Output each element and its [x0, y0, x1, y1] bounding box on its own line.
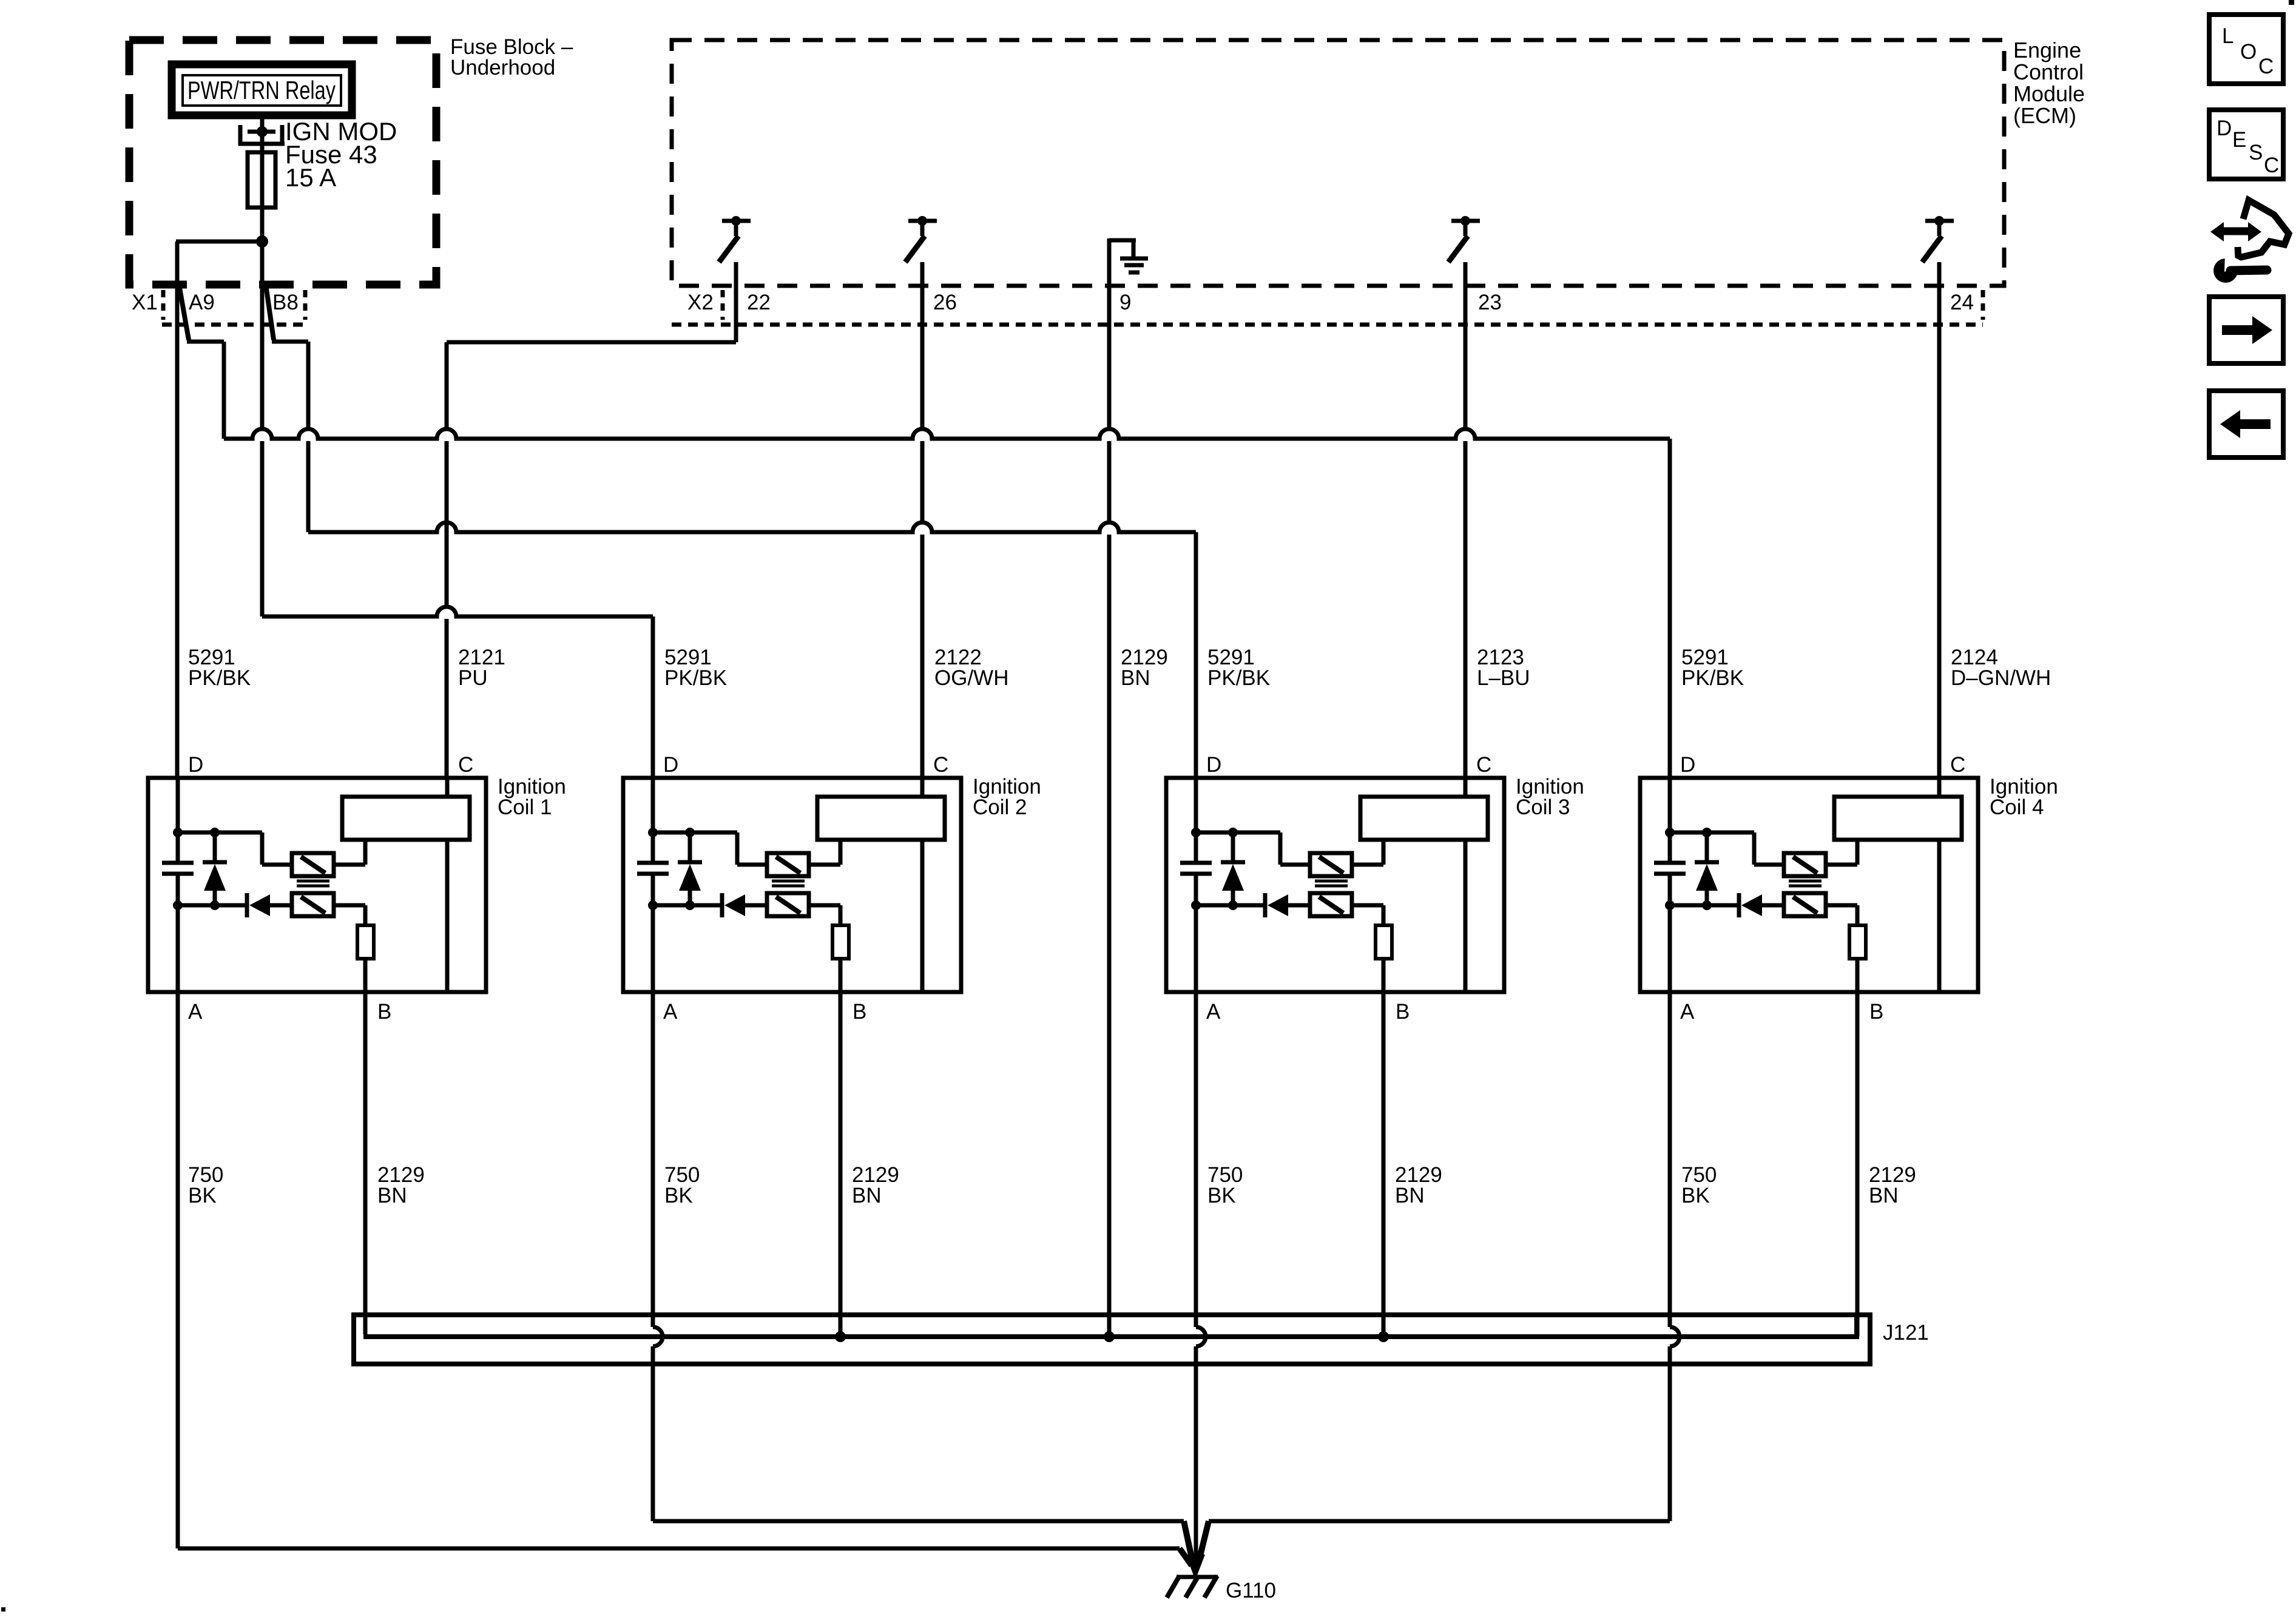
coil 4 D-A internal wire [1668, 778, 1672, 861]
svg-text:B8: B8 [272, 291, 299, 314]
coil 2 D-A internal wire [651, 778, 655, 861]
svg-text:BK: BK [188, 1184, 217, 1207]
svg-text:Control: Control [2013, 59, 2084, 84]
wire junction to A9 [176, 240, 262, 244]
svg-text:PK/BK: PK/BK [664, 666, 727, 690]
svg-text:C: C [458, 753, 473, 777]
connector X1 row dotted line [162, 323, 306, 327]
svg-text:Coil 3: Coil 3 [1516, 795, 1570, 819]
wire 2129 BN pin 9 [1107, 238, 1112, 429]
coil 3 zener diode [1231, 832, 1235, 862]
coil 4 driver top box [1784, 853, 1826, 876]
svg-text:BN: BN [852, 1184, 882, 1207]
wire coil3 B to J121 [1382, 992, 1386, 1337]
coil 2 link top box to winding [809, 863, 840, 867]
coil 1 driver top box [292, 853, 334, 876]
svg-text:D: D [663, 753, 678, 777]
coil 1 core bars [297, 880, 329, 883]
coil 3 driver bottom box [1310, 893, 1352, 916]
ECM dashed box [672, 40, 2004, 286]
svg-text:A: A [1680, 1000, 1695, 1024]
svg-text:BK: BK [1681, 1184, 1710, 1207]
coil 1 top rail [178, 831, 262, 835]
coil 2 core bars [772, 880, 805, 883]
svg-text:9: 9 [1119, 291, 1131, 314]
ignition coil 2 box [623, 778, 961, 992]
coil 2 resistor [832, 925, 849, 959]
coil 2 zener diode [688, 832, 692, 862]
coil 3 driver top box [1310, 853, 1352, 876]
ground G110 symbol [1177, 1575, 1218, 1579]
wire coil4 A down [1668, 992, 1672, 1327]
wire 2121 PU pin22 jog [734, 262, 738, 342]
svg-text:PK/BK: PK/BK [1207, 666, 1270, 690]
coil 1 capacitor [162, 861, 194, 865]
coil 2 bottom rail [653, 903, 720, 908]
coil 1 primary winding [342, 797, 470, 840]
wire A9 branch to bus1 [187, 340, 224, 344]
bus2 wire 5291 to coil3 D [308, 522, 1196, 532]
coil 2 link bottom box to resistor [809, 903, 840, 908]
svg-text:26: 26 [933, 291, 957, 314]
coil 3 core bars [1315, 880, 1348, 883]
coil 3 primary winding [1360, 797, 1488, 840]
svg-text:C: C [933, 753, 948, 777]
coil 4 link bottom box to resistor [1826, 903, 1857, 908]
wire 2122 OG/WH pin 26 [920, 262, 925, 429]
ECM driver pin 23 [1451, 219, 1480, 223]
junction dot fuse output [256, 235, 268, 248]
coil 2 driver bottom box [767, 893, 809, 916]
wire coil2 B to J121 [839, 992, 843, 1337]
wire fuse to junction [260, 208, 265, 241]
coil 3 link top box to winding [1352, 863, 1383, 867]
pin A9 terminal slant [179, 285, 189, 340]
svg-text:BN: BN [1121, 666, 1150, 690]
coil 2 B internal wire [839, 959, 843, 992]
icon LOC box [2209, 15, 2283, 84]
svg-text:22: 22 [747, 291, 771, 314]
ECM internal ground pin 9 [1109, 238, 1136, 243]
svg-text:Coil 4: Coil 4 [1990, 795, 2044, 819]
svg-text:C: C [1476, 753, 1491, 777]
ECM driver pin 22 [722, 219, 751, 223]
coil 4 C internal wire [1937, 778, 1942, 797]
wire through fuse [260, 157, 265, 208]
coil 3 top rail [1196, 831, 1280, 835]
svg-text:Underhood: Underhood [450, 56, 555, 79]
svg-text:X2: X2 [687, 291, 714, 314]
svg-text:D: D [188, 753, 203, 777]
bus1 wire 5291 to coil4 D [224, 429, 1670, 439]
svg-text:BN: BN [1869, 1184, 1899, 1207]
svg-text:15 A: 15 A [285, 163, 336, 192]
svg-text:A: A [1206, 1000, 1221, 1024]
svg-text:B: B [1869, 1000, 1883, 1024]
ignition coil 3 box [1166, 778, 1504, 992]
coil 4 zener diode [1705, 832, 1709, 862]
svg-text:PU: PU [458, 666, 488, 690]
svg-text:C: C [2258, 55, 2274, 78]
wire coil2 A down [651, 992, 655, 1327]
icon circuit-wrench [2210, 200, 2289, 283]
wire relay to fuse [260, 115, 265, 157]
svg-text:24: 24 [1950, 291, 1974, 314]
svg-text:A9: A9 [189, 291, 215, 314]
svg-text:BN: BN [377, 1184, 407, 1207]
coil 4 primary winding [1834, 797, 1962, 840]
wire coil4 B to J121 [1855, 992, 1860, 1337]
svg-text:PK/BK: PK/BK [188, 666, 251, 690]
wire B8 straight down to bus3 [260, 241, 265, 429]
coil 1 zener diode [213, 832, 217, 862]
svg-text:(ECM): (ECM) [2013, 103, 2076, 128]
svg-text:BN: BN [1395, 1184, 1425, 1207]
coil 4 B internal wire [1855, 959, 1860, 992]
svg-text:B: B [1396, 1000, 1410, 1024]
svg-text:J121: J121 [1883, 1321, 1929, 1345]
ECM driver pin 24 [1925, 219, 1954, 223]
svg-text:O: O [2240, 40, 2257, 64]
coil 1 resistor [357, 925, 374, 959]
svg-text:D: D [1206, 753, 1221, 777]
wire A9 straight down to coil1 D [175, 241, 180, 778]
svg-text:Coil 1: Coil 1 [498, 795, 552, 819]
svg-text:A: A [663, 1000, 678, 1024]
svg-text:OG/WH: OG/WH [934, 666, 1008, 690]
svg-text:PK/BK: PK/BK [1681, 666, 1744, 690]
fuse F43 clip and body [248, 130, 275, 134]
svg-text:Coil 2: Coil 2 [973, 795, 1027, 819]
coil 1 bottom rail [178, 903, 245, 908]
coil 3 resistor [1376, 925, 1392, 959]
svg-text:C: C [1950, 753, 1965, 777]
coil 3 capacitor [1180, 861, 1212, 865]
wire coil2/coil4 A to G110 [653, 1519, 1184, 1524]
svg-text:D–GN/WH: D–GN/WH [1951, 666, 2051, 690]
ignition coil 4 box [1640, 778, 1978, 992]
wire coil1 A to G110 [178, 1547, 1180, 1551]
ground G110 arrow [1186, 1555, 1205, 1580]
coil 2 primary winding [817, 797, 945, 840]
coil 2 diode [720, 893, 724, 917]
svg-text:D: D [1680, 753, 1695, 777]
wire coil3 A down [1194, 992, 1198, 1327]
svg-text:D: D [2217, 116, 2232, 140]
connector X1 separators [161, 290, 166, 320]
icon DESC box [2209, 110, 2283, 179]
wire coil1 B to J121 [363, 992, 368, 1334]
relay K PWR/TRN Relay box [172, 64, 352, 115]
svg-text:E: E [2232, 128, 2246, 152]
svg-text:G110: G110 [1226, 1579, 1276, 1602]
wire 2124 D-GN/WH pin 24 [1937, 262, 1942, 778]
coil 4 top rail [1670, 831, 1754, 835]
svg-text:X1: X1 [132, 291, 158, 314]
icon arrow-right box [2209, 297, 2283, 363]
coil 4 driver bottom box [1784, 893, 1826, 916]
svg-text:Engine: Engine [2013, 38, 2081, 62]
coil 2 C internal wire [920, 778, 925, 797]
bus3 wire 5291 to coil2 D [262, 607, 653, 616]
coil 1 B internal wire [363, 959, 368, 992]
icon arrow-left box [2209, 391, 2283, 457]
coil 4 capacitor [1654, 861, 1686, 865]
svg-text:L: L [2222, 24, 2234, 48]
splice J121 dots [835, 1331, 846, 1342]
coil 3 diode [1263, 893, 1268, 917]
page mark top right [2289, 0, 2294, 5]
wire coil1 A down [176, 992, 180, 1548]
svg-text:BK: BK [1207, 1184, 1236, 1207]
coil 4 diode [1737, 893, 1741, 917]
svg-text:A: A [188, 1000, 203, 1024]
coil 2 top rail [653, 831, 737, 835]
svg-text:L–BU: L–BU [1477, 666, 1530, 690]
coil 1 C internal wire [445, 778, 450, 797]
coil 4 link top box to winding [1826, 863, 1857, 867]
coil 2 driver top box [767, 853, 809, 876]
connector X2 separators [721, 290, 725, 320]
svg-text:C: C [2264, 154, 2279, 177]
coil 3 link bottom box to resistor [1352, 903, 1383, 908]
connector X2 row dotted line [672, 323, 1983, 327]
svg-text:B: B [853, 1000, 866, 1024]
svg-text:B: B [377, 1000, 391, 1024]
svg-text:PWR/TRN Relay: PWR/TRN Relay [187, 76, 336, 104]
coil 1 D-A internal wire [176, 778, 180, 861]
splice pack J121 outline [354, 1315, 1870, 1364]
fuse block Underhood dashed box [129, 40, 436, 285]
coil 3 C internal wire [1464, 778, 1468, 797]
svg-text:S: S [2249, 141, 2263, 164]
page mark bottom left [1, 1607, 5, 1612]
coil 4 core bars [1789, 880, 1822, 883]
coil 4 bottom rail [1670, 903, 1737, 908]
svg-text:23: 23 [1478, 291, 1502, 314]
coil 1 driver bottom box [292, 893, 334, 916]
coil 3 B internal wire [1382, 959, 1386, 992]
coil 4 resistor [1849, 925, 1866, 959]
ignition coil 1 box [148, 778, 486, 992]
coil 2 capacitor [637, 861, 669, 865]
wire B8 branch to bus2 [272, 340, 308, 344]
splice J121 bus [366, 1315, 1857, 1337]
wire 2123 L-BU pin 23 [1464, 262, 1468, 429]
coil 1 link bottom box to resistor [334, 903, 365, 908]
coil 3 bottom rail [1196, 903, 1263, 908]
coil 1 link top box to winding [334, 863, 365, 867]
coil 3 D-A internal wire [1194, 778, 1198, 861]
coil 1 diode [245, 893, 249, 917]
svg-text:BK: BK [664, 1184, 693, 1207]
ECM driver pin 26 [908, 219, 937, 223]
pin B8 terminal slant [266, 285, 274, 340]
svg-text:Module: Module [2013, 81, 2085, 106]
